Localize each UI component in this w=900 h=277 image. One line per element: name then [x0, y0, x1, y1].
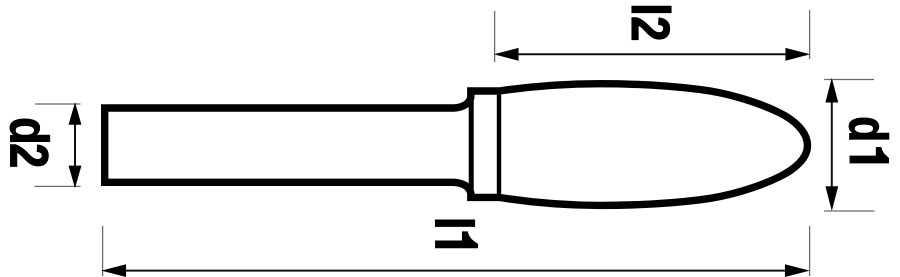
- d2 label: [10, 119, 50, 166]
- separator line shank/collar: [469, 88, 474, 201]
- l2 left extension line: [494, 11, 496, 62]
- l2 dimension line: [497, 53, 807, 55]
- d2 bottom extension line: [35, 185, 81, 187]
- l2 right extension line: [809, 10, 811, 59]
- l1 left arrow: [104, 265, 126, 276]
- l1 dimension line: [106, 270, 805, 272]
- l2 right arrow: [786, 49, 808, 60]
- d1 dimension line: [831, 82, 833, 207]
- d1 arrow up: [826, 80, 837, 102]
- separator line collar/head: [497, 88, 501, 201]
- d2 arrow up: [69, 104, 80, 124]
- l1 right extension line: [809, 226, 811, 276]
- d1 bottom extension line: [824, 210, 875, 212]
- d1 arrow down: [826, 187, 837, 209]
- d1 top extension line: [824, 79, 874, 81]
- d2 top extension line: [35, 103, 81, 105]
- burr body outline (shank + flare + collar + egg-shaped head): [105, 84, 808, 206]
- d1 label: [849, 118, 889, 163]
- d2 dimension line: [74, 106, 76, 184]
- d2 arrow down: [69, 166, 80, 186]
- l2 left arrow: [496, 49, 518, 60]
- l1 label: [436, 220, 478, 248]
- l2 label: [632, 6, 671, 39]
- l1 left extension line: [102, 226, 104, 276]
- l1 right arrow: [786, 265, 808, 276]
